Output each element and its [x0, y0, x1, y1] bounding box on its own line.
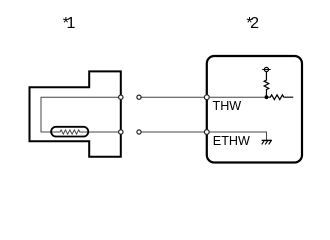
svg-text:*1: *1: [63, 15, 76, 32]
svg-text:ETHW: ETHW: [213, 134, 250, 148]
svg-text:THW: THW: [213, 99, 242, 113]
svg-text:*2: *2: [246, 15, 259, 32]
